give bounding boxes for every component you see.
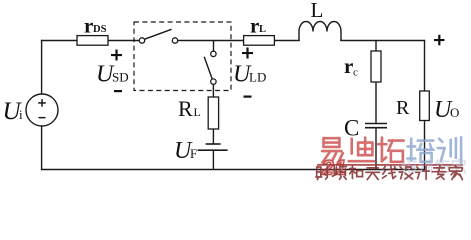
svg-text:r: r	[84, 14, 93, 38]
resistor r_L	[244, 36, 275, 46]
watermark logo big text row	[322, 137, 461, 163]
switch S2 stem wire	[213, 41, 215, 52]
switch S1 (series)	[139, 29, 177, 43]
dashed box (switch network)	[134, 22, 231, 91]
wire left vertical lower	[41, 126, 43, 170]
svg-text:R: R	[178, 96, 193, 121]
wire right vertical lower	[424, 121, 426, 171]
svg-text:i: i	[19, 107, 23, 122]
resistor R_L	[208, 97, 218, 129]
svg-text:L: L	[194, 105, 201, 119]
watermark faint blue sub row	[402, 159, 465, 173]
wire right vertical upper	[424, 40, 426, 92]
svg-text:r: r	[344, 54, 353, 78]
inductor L	[299, 22, 341, 42]
wire top segment A	[41, 40, 78, 42]
label + of U_SD	[111, 50, 122, 61]
wire top segment B	[108, 40, 139, 42]
svg-text:SD: SD	[112, 70, 129, 85]
label - of U_LD	[244, 96, 252, 98]
label + output	[434, 35, 445, 46]
wire top segment C	[178, 40, 244, 42]
svg-text:LD: LD	[249, 70, 266, 85]
svg-text:O: O	[450, 105, 459, 120]
battery U_F	[198, 144, 228, 150]
wire top segment E	[340, 40, 425, 42]
switch S2 (shunt)	[204, 51, 216, 84]
svg-text:F: F	[190, 146, 197, 161]
svg-text:R: R	[396, 97, 410, 119]
voltage source U_i	[26, 94, 58, 126]
svg-text:c: c	[353, 67, 358, 79]
wire S2 to R_L	[212, 84, 214, 97]
wire r_c branch upper	[375, 41, 377, 52]
wire battery to bottom	[212, 150, 214, 170]
resistor r_c	[371, 51, 381, 82]
watermark slogan text row	[316, 166, 463, 180]
resistor R	[420, 91, 430, 121]
wire R_L to battery	[212, 129, 214, 144]
svg-text:C: C	[344, 116, 359, 141]
svg-text:L: L	[311, 0, 324, 22]
svg-text:r: r	[250, 14, 259, 38]
label + of U_LD	[242, 48, 253, 59]
wire top segment D	[274, 40, 299, 42]
svg-text:DS: DS	[93, 24, 107, 35]
wire C to bottom	[375, 128, 377, 170]
watermark underline	[317, 164, 463, 166]
capacitor C	[365, 124, 387, 128]
resistor r_DS	[77, 36, 108, 46]
wire r_c to C	[375, 82, 377, 124]
label - of U_SD	[114, 90, 122, 92]
wire bottom	[41, 169, 425, 171]
svg-text:L: L	[259, 24, 266, 35]
wire left vertical upper	[41, 40, 43, 94]
